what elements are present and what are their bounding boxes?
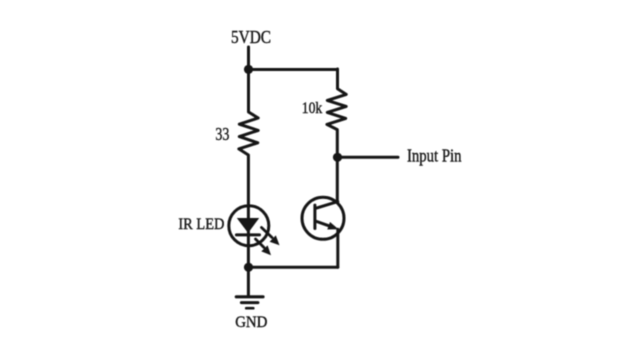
svg-text:Input Pin: Input Pin [407, 146, 462, 166]
svg-text:33: 33 [215, 124, 229, 144]
svg-text:10k: 10k [302, 100, 323, 117]
svg-text:GND: GND [235, 314, 267, 331]
svg-text:IR LED: IR LED [178, 216, 224, 233]
svg-text:5VDC: 5VDC [231, 27, 271, 47]
